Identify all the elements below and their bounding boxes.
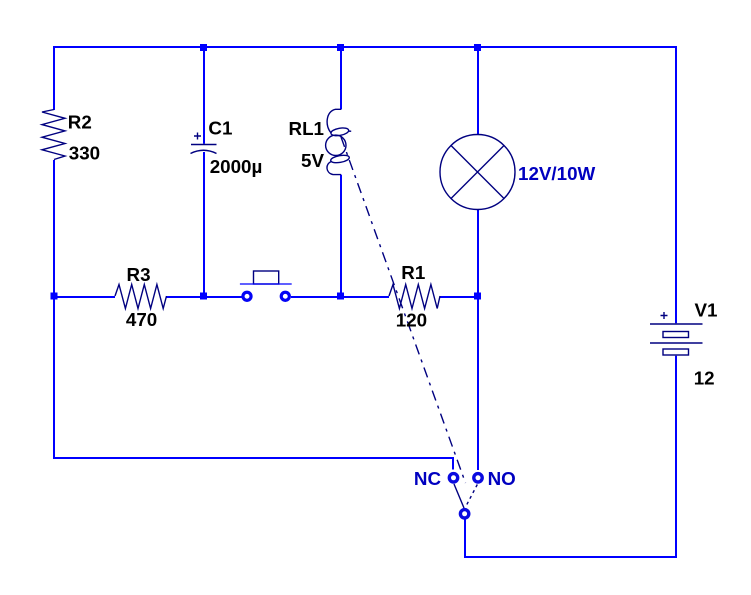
svg-text:R3: R3 [127, 264, 151, 285]
svg-text:C1: C1 [208, 118, 232, 139]
svg-text:120: 120 [396, 310, 427, 331]
svg-text:2000µ: 2000µ [210, 156, 263, 177]
svg-text:12: 12 [694, 368, 715, 389]
svg-text:330: 330 [69, 143, 100, 164]
svg-text:NO: NO [488, 468, 516, 489]
svg-text:470: 470 [126, 309, 157, 330]
svg-text:RL1: RL1 [289, 118, 324, 139]
svg-text:5V: 5V [301, 150, 324, 171]
svg-text:NC: NC [414, 468, 442, 489]
svg-text:R2: R2 [68, 112, 92, 133]
svg-text:12V/10W: 12V/10W [518, 163, 596, 184]
svg-text:V1: V1 [695, 300, 718, 321]
svg-text:R1: R1 [401, 262, 425, 283]
